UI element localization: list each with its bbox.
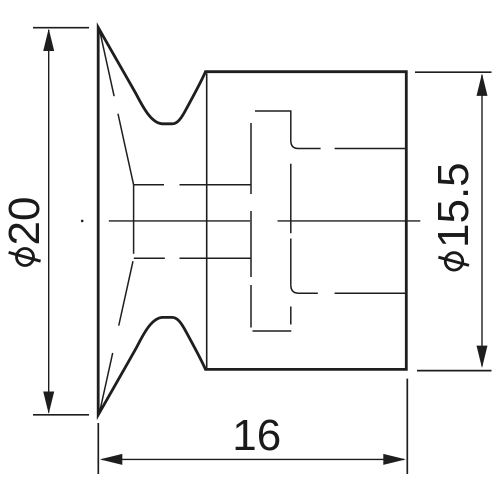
arrow phi15.5 down bbox=[477, 346, 488, 368]
extension line 16 left bbox=[97, 423, 99, 474]
label phi20 diameter symbol bbox=[17, 249, 34, 266]
hidden step face x=251 bbox=[250, 123, 252, 328]
dimension line 16 bbox=[102, 458, 404, 460]
arrow phi20 down bbox=[43, 392, 54, 414]
arrow 16 right bbox=[383, 454, 406, 465]
extension line phi15.5 top bbox=[415, 71, 492, 73]
svg-text:16: 16 bbox=[232, 411, 281, 460]
extension line phi20 bottom bbox=[33, 414, 89, 416]
dimension line phi15.5 bbox=[481, 75, 483, 366]
extension line phi15.5 bottom bbox=[417, 370, 492, 372]
extension line phi20 top bbox=[33, 27, 89, 29]
svg-text:15.5: 15.5 bbox=[429, 162, 478, 248]
label phi15.5 diameter symbol bbox=[445, 253, 462, 270]
arrow phi15.5 up bbox=[477, 74, 488, 96]
arrow phi20 up bbox=[43, 29, 54, 51]
hidden bore bottom line bbox=[134, 257, 251, 259]
centerline dot bbox=[81, 220, 84, 223]
arrow 16 left bbox=[100, 454, 123, 465]
body left face line bbox=[206, 73, 208, 368]
dimension line phi20 bbox=[48, 30, 50, 413]
svg-text:20: 20 bbox=[0, 197, 49, 246]
hidden step face x=290.8 middle bbox=[290, 164, 292, 285]
centerline bbox=[109, 220, 421, 222]
inner cone edge top bbox=[99, 29, 133, 185]
part outline (suction-cup body silhouette) bbox=[98, 27, 406, 415]
bore face vertical bbox=[133, 185, 135, 254]
extension line 16 right bbox=[406, 379, 408, 474]
hidden counterbore bottom bbox=[253, 285, 407, 331]
hidden counterbore top bbox=[255, 111, 406, 149]
hidden bore top line bbox=[134, 184, 251, 186]
inner cone edge bottom bbox=[99, 258, 133, 413]
